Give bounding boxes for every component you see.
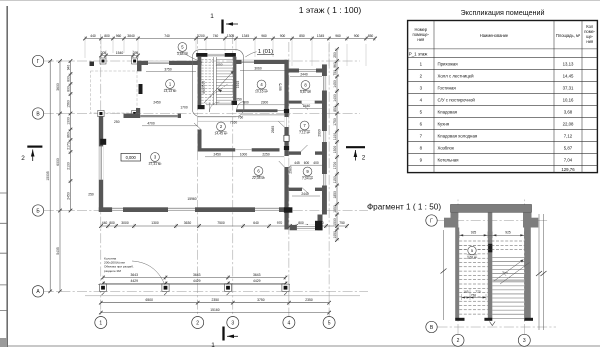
svg-text:2440: 2440 xyxy=(300,72,308,76)
level mark 0.000 xyxy=(121,153,141,161)
svg-text:5: 5 xyxy=(328,320,331,326)
dimension chain right fine xyxy=(333,47,339,242)
svg-text:10,16 м²: 10,16 м² xyxy=(255,90,269,94)
svg-text:7,12 м²: 7,12 м² xyxy=(299,131,311,135)
svg-text:850: 850 xyxy=(368,34,374,38)
svg-text:Г: Г xyxy=(430,218,433,224)
svg-text:4429: 4429 xyxy=(253,279,261,283)
svg-text:250: 250 xyxy=(333,52,337,58)
svg-text:3510: 3510 xyxy=(202,81,206,89)
dimension chain bottom inner xyxy=(99,221,349,228)
svg-text:295: 295 xyxy=(133,51,139,55)
svg-text:4429: 4429 xyxy=(193,279,201,283)
fragment grid bubble 3 xyxy=(518,334,530,346)
dimension chain left spans xyxy=(56,59,62,293)
svg-text:250: 250 xyxy=(114,120,120,124)
door arcs xyxy=(194,102,309,194)
room label 7 кладовая холодная xyxy=(299,121,311,135)
fragment grid bubble В xyxy=(426,321,437,332)
svg-text:8875: 8875 xyxy=(279,83,283,91)
svg-text:3643: 3643 xyxy=(193,273,201,277)
svg-text:900: 900 xyxy=(280,34,286,38)
svg-text:3: 3 xyxy=(231,320,234,326)
stair treads plan xyxy=(198,57,237,117)
svg-text:Экспликация помещений: Экспликация помещений xyxy=(460,8,544,17)
svg-text:800: 800 xyxy=(298,221,304,225)
svg-text:2440: 2440 xyxy=(301,192,309,196)
svg-text:850: 850 xyxy=(333,106,337,112)
section marker 1 top xyxy=(210,13,238,34)
svg-text:1915: 1915 xyxy=(236,81,240,89)
room label 3 гостиная xyxy=(149,153,163,167)
section marker 2 right xyxy=(346,147,366,161)
svg-text:960: 960 xyxy=(116,34,122,38)
svg-text:2250: 2250 xyxy=(262,153,270,157)
svg-text:6500: 6500 xyxy=(146,298,154,302)
svg-text:205: 205 xyxy=(101,51,107,55)
grid bubble 3 xyxy=(227,317,239,329)
porch piers at grid Г and В xyxy=(90,58,138,117)
wall south main xyxy=(99,207,290,212)
porch outline dashed upper-left xyxy=(91,71,138,113)
dimension chain porch row2 xyxy=(101,279,287,286)
svg-text:2350: 2350 xyxy=(212,298,220,302)
dimension chain bottom spans xyxy=(99,298,331,305)
fragment grid bubble Г xyxy=(426,215,437,226)
svg-text:2300: 2300 xyxy=(261,101,269,105)
title plan xyxy=(299,5,362,15)
svg-text:250: 250 xyxy=(88,193,94,197)
svg-text:Гостиная: Гостиная xyxy=(438,86,457,91)
room label 6 кухня xyxy=(252,167,266,181)
svg-text:5405: 5405 xyxy=(56,247,60,255)
svg-text:1200: 1200 xyxy=(197,34,205,38)
fragment grid bubble 2 xyxy=(452,334,464,346)
column callout note xyxy=(104,257,164,284)
fragment dim 160 770 xyxy=(462,289,487,300)
extension lines top chains xyxy=(85,41,366,66)
svg-text:14,45: 14,45 xyxy=(563,74,574,79)
wall north stair block xyxy=(196,53,236,57)
svg-text:640: 640 xyxy=(253,221,259,225)
fragment dim 925 925 xyxy=(459,230,524,238)
svg-text:3000: 3000 xyxy=(121,221,129,225)
svg-text:13,13: 13,13 xyxy=(563,62,574,67)
svg-text:1540: 1540 xyxy=(116,51,124,55)
section marker 1 bottom xyxy=(211,327,238,350)
svg-text:250: 250 xyxy=(236,97,242,101)
svg-text:1750: 1750 xyxy=(333,118,337,126)
svg-text:740: 740 xyxy=(213,34,219,38)
wall room1 hall divider xyxy=(198,130,202,152)
dimension chain top outer xyxy=(83,34,377,41)
svg-text:1: 1 xyxy=(210,13,214,20)
wall west porch pier xyxy=(137,61,143,94)
svg-text:860: 860 xyxy=(66,132,70,138)
svg-text:850: 850 xyxy=(299,34,305,38)
svg-text:2130: 2130 xyxy=(66,162,70,170)
interior dimension texts xyxy=(88,66,321,201)
svg-text:1700: 1700 xyxy=(333,162,337,170)
svg-text:С/У с постирочной: С/У с постирочной xyxy=(438,98,476,103)
svg-text:1050: 1050 xyxy=(333,205,337,213)
svg-text:800: 800 xyxy=(66,86,70,92)
svg-text:22,08 м²: 22,08 м² xyxy=(252,176,266,180)
svg-text:750: 750 xyxy=(339,221,345,225)
svg-text:Кухня: Кухня xyxy=(438,122,450,127)
dimension chain porch row1 xyxy=(101,273,287,280)
svg-text:925: 925 xyxy=(505,230,511,234)
wall north left wing xyxy=(137,61,202,65)
svg-text:ния: ния xyxy=(417,37,424,42)
svg-text:2450: 2450 xyxy=(66,192,70,200)
svg-text:Кладовая: Кладовая xyxy=(438,110,458,115)
fragment stair treads xyxy=(459,241,529,318)
svg-text:3643: 3643 xyxy=(131,273,139,277)
svg-text:600: 600 xyxy=(243,101,249,105)
wall extension boiler room xyxy=(290,215,323,231)
svg-text:4700: 4700 xyxy=(147,122,155,126)
svg-text:750: 750 xyxy=(471,293,476,297)
svg-text:3750: 3750 xyxy=(164,67,172,71)
svg-text:1150: 1150 xyxy=(333,176,337,183)
svg-text:440: 440 xyxy=(102,221,108,225)
svg-text:2980: 2980 xyxy=(288,166,292,174)
dimension chain left fine xyxy=(66,59,72,212)
svg-text:940: 940 xyxy=(66,65,70,71)
wall north right wing xyxy=(236,60,287,64)
svg-text:925: 925 xyxy=(471,230,477,234)
grid bubble 2 xyxy=(192,317,204,329)
svg-text:3643: 3643 xyxy=(253,273,261,277)
svg-text:3060: 3060 xyxy=(254,66,262,70)
room label 4 су xyxy=(255,80,269,94)
svg-text:740: 740 xyxy=(164,34,170,38)
svg-text:1050: 1050 xyxy=(333,231,337,239)
fragment wall top xyxy=(444,205,538,228)
svg-text:10,16: 10,16 xyxy=(563,98,574,103)
svg-text:37,31: 37,31 xyxy=(563,86,574,91)
svg-text:Кладовая холодная: Кладовая холодная xyxy=(438,134,478,139)
svg-text:2170: 2170 xyxy=(66,142,70,150)
svg-text:15005: 15005 xyxy=(46,171,50,180)
svg-text:3: 3 xyxy=(523,338,526,344)
svg-text:22,08: 22,08 xyxy=(563,122,574,127)
svg-text:1100: 1100 xyxy=(333,133,337,140)
svg-text:7,04: 7,04 xyxy=(564,158,573,163)
wall room4 south xyxy=(198,109,290,121)
wall central spine xyxy=(284,73,293,230)
svg-text:960: 960 xyxy=(261,34,267,38)
svg-text:900: 900 xyxy=(354,34,360,38)
porch columns row xyxy=(85,282,360,296)
svg-text:Холл с лестницей: Холл с лестницей xyxy=(438,74,475,79)
svg-text:1050: 1050 xyxy=(216,63,223,67)
svg-text:750: 750 xyxy=(333,70,337,76)
svg-text:2450: 2450 xyxy=(214,153,222,157)
svg-text:37,31 м²: 37,31 м² xyxy=(149,162,163,166)
fragment wall central xyxy=(484,212,492,320)
svg-text:3,68 м²: 3,68 м² xyxy=(177,52,189,56)
svg-text:0,000: 0,000 xyxy=(126,155,137,160)
svg-text:800: 800 xyxy=(66,76,70,82)
svg-text:2: 2 xyxy=(21,155,25,162)
svg-text:2: 2 xyxy=(457,338,460,344)
svg-text:3840: 3840 xyxy=(127,34,135,38)
svg-text:440: 440 xyxy=(90,34,96,38)
grid bubble 1 xyxy=(95,317,107,329)
wall west main xyxy=(99,116,106,212)
svg-text:3630: 3630 xyxy=(184,221,192,225)
svg-text:445: 445 xyxy=(294,161,300,165)
svg-text:770: 770 xyxy=(475,290,480,294)
svg-text:2985: 2985 xyxy=(271,126,275,134)
svg-text:1500: 1500 xyxy=(333,218,337,226)
svg-text:1000: 1000 xyxy=(240,153,248,157)
svg-text:Р_1 этаж: Р_1 этаж xyxy=(409,51,428,56)
svg-text:3,68: 3,68 xyxy=(564,110,573,115)
svg-text:1450: 1450 xyxy=(333,80,337,88)
svg-text:970: 970 xyxy=(277,221,283,225)
svg-text:Котельная: Котельная xyxy=(438,158,460,163)
svg-text:5,87 м²: 5,87 м² xyxy=(300,90,312,94)
title fragment xyxy=(367,203,441,212)
svg-text:15160: 15160 xyxy=(210,308,219,312)
dimension chain left total xyxy=(46,59,52,293)
svg-text:1300: 1300 xyxy=(66,117,70,125)
fragment vertical dim lines xyxy=(441,214,547,330)
room label 5 кладовая leader xyxy=(177,43,202,63)
grid bubble Б plan xyxy=(32,205,43,216)
svg-text:1560: 1560 xyxy=(66,100,70,108)
svg-text:3,68 м²: 3,68 м² xyxy=(467,256,477,260)
svg-text:2450: 2450 xyxy=(153,101,161,105)
room label 9 котельная xyxy=(302,167,314,181)
wall at grid В xyxy=(98,108,181,118)
room label 2 холл xyxy=(215,122,229,136)
svg-text:5,87: 5,87 xyxy=(564,146,573,151)
svg-text:1400: 1400 xyxy=(333,94,337,102)
svg-text:800: 800 xyxy=(104,34,110,38)
svg-text:1850: 1850 xyxy=(333,191,337,199)
svg-text:2440: 2440 xyxy=(303,104,311,108)
svg-text:2: 2 xyxy=(362,155,366,162)
svg-text:1: 1 xyxy=(99,320,102,326)
svg-text:Площадь, м²: Площадь, м² xyxy=(556,33,581,38)
svg-text:Фрагмент 1 ( 1 : 50): Фрагмент 1 ( 1 : 50) xyxy=(367,203,441,212)
grid bubble В plan xyxy=(32,108,43,119)
svg-text:Г: Г xyxy=(37,59,40,65)
svg-text:2350: 2350 xyxy=(305,298,313,302)
fragment wall left xyxy=(455,228,464,321)
grid bubble 4 xyxy=(283,317,295,329)
grid bubble Г plan xyxy=(32,55,43,66)
svg-text:1500: 1500 xyxy=(333,146,337,154)
svg-text:600: 600 xyxy=(304,161,310,165)
svg-text:4: 4 xyxy=(288,320,291,326)
wall kitchen north xyxy=(198,148,280,151)
room label 1 прихожая xyxy=(164,80,178,94)
section marker 2 left xyxy=(21,147,42,162)
svg-text:6000: 6000 xyxy=(56,158,60,166)
svg-text:7,12: 7,12 xyxy=(564,134,573,139)
svg-text:Прихожая: Прихожая xyxy=(438,62,459,67)
svg-text:7,04 м²: 7,04 м² xyxy=(302,177,314,181)
room label 8 хозблок xyxy=(300,81,312,95)
svg-text:1700: 1700 xyxy=(180,106,188,110)
fragment bottom arrow xyxy=(490,322,496,326)
grid axis lines plan xyxy=(44,34,368,317)
svg-text:Хозблок: Хозблок xyxy=(438,146,454,151)
svg-text:Наименование: Наименование xyxy=(480,33,509,38)
svg-text:13,13 м²: 13,13 м² xyxy=(164,89,178,93)
svg-text:7500: 7500 xyxy=(217,221,225,225)
svg-text:15960: 15960 xyxy=(187,197,196,201)
wall room9 south xyxy=(289,188,323,191)
svg-text:129,76: 129,76 xyxy=(561,167,575,172)
fragment grid lines xyxy=(438,200,557,335)
svg-text:7160: 7160 xyxy=(230,121,238,125)
dimension chain top second xyxy=(99,51,140,58)
svg-text:960: 960 xyxy=(335,34,341,38)
svg-text:800: 800 xyxy=(109,221,115,225)
svg-text:400: 400 xyxy=(313,161,319,165)
svg-text:14,45 м²: 14,45 м² xyxy=(215,132,229,136)
fragment room label 5 xyxy=(467,246,477,259)
grid bubble 5 xyxy=(323,317,335,329)
interior dimension lines xyxy=(142,70,322,196)
svg-text:1300: 1300 xyxy=(151,221,159,225)
wall east main xyxy=(322,64,327,214)
svg-text:разделе КМ: разделе КМ xyxy=(104,269,121,273)
svg-text:2090: 2090 xyxy=(317,129,321,137)
wall north room8 block xyxy=(284,60,326,73)
svg-text:3600: 3600 xyxy=(56,83,60,91)
fragment callout rounded rect xyxy=(192,49,274,116)
svg-text:960: 960 xyxy=(333,62,337,68)
svg-text:ния: ния xyxy=(586,39,593,44)
table экспликация помещений xyxy=(408,8,598,173)
grid bubble А plan xyxy=(32,286,43,297)
svg-text:3750: 3750 xyxy=(257,298,265,302)
svg-text:165: 165 xyxy=(463,290,468,294)
svg-text:760: 760 xyxy=(238,115,244,119)
svg-text:1345: 1345 xyxy=(242,34,250,38)
wall rooms 8-7 divider xyxy=(289,101,322,104)
dimension chain bottom total xyxy=(99,308,331,315)
svg-text:990: 990 xyxy=(202,88,206,94)
fragment wall right xyxy=(524,228,533,321)
svg-text:1: 1 xyxy=(211,342,215,347)
wall stair left xyxy=(198,57,205,109)
svg-text:1 этаж ( 1 : 100): 1 этаж ( 1 : 100) xyxy=(299,5,362,15)
wall stair right xyxy=(232,57,238,105)
svg-text:1305: 1305 xyxy=(227,34,235,38)
svg-text:1345: 1345 xyxy=(317,34,325,38)
wall rooms 7-9 divider xyxy=(289,151,322,154)
svg-text:4429: 4429 xyxy=(131,279,139,283)
svg-text:2: 2 xyxy=(196,320,199,326)
